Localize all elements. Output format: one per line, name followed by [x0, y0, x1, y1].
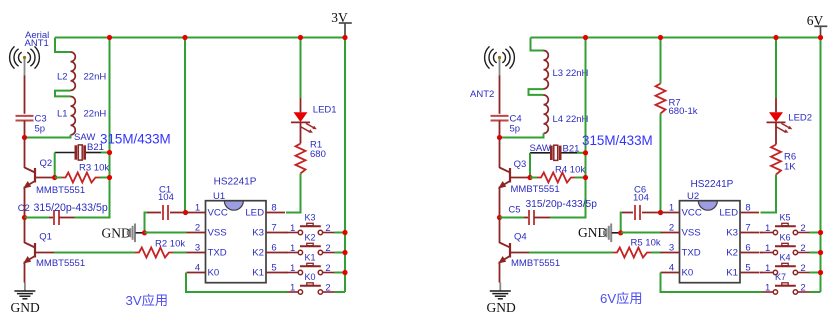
capacitor C5 [529, 210, 534, 225]
wire rail drop to VCC pin1 [184, 38, 186, 213]
wire L3-L4 jog [529, 89, 544, 95]
wire rail drop to SAW/R3/C2 net [75, 38, 110, 218]
svg-text:2: 2 [800, 243, 805, 254]
svg-text:Q2: Q2 [40, 158, 53, 169]
ground GND earth right [490, 283, 511, 299]
wire Q4 emitter down [499, 262, 501, 283]
wire ANT2 to C4 [499, 76, 501, 114]
node Q3 base [527, 175, 532, 180]
wire L2-L1 jog [55, 91, 71, 97]
U2 pin 5 (K1) [740, 272, 759, 274]
wire Q1 collector [24, 218, 26, 244]
junction SAW right net [583, 150, 588, 155]
junction K2/rail [342, 250, 347, 255]
wire pin to K6 [760, 252, 764, 254]
capacitor C2 [54, 210, 59, 225]
U1 pin 3 (TXD) [187, 252, 206, 254]
wire L1 to C3 node [25, 135, 71, 138]
svg-text:C5: C5 [508, 204, 520, 215]
power ground symbol at VSS U1 [128, 224, 135, 243]
svg-text:6: 6 [745, 243, 750, 254]
wire Q4 collector [499, 218, 501, 244]
resistor R7 680-1k [656, 84, 666, 114]
svg-text:1: 1 [290, 243, 295, 254]
U2 pin 7 (K3) [740, 232, 759, 234]
svg-text:ANT2: ANT2 [470, 89, 494, 100]
transistor Q4 MMBT5551 [500, 243, 530, 263]
U2 pin 2 (VSS) [661, 232, 680, 234]
wire pin to K3 [285, 232, 288, 234]
inductor L1 [71, 97, 76, 135]
wire LED1 cathode to R1 [300, 123, 302, 144]
svg-text:K6: K6 [780, 232, 791, 242]
U1 pin 4 (K0) [187, 272, 206, 274]
wire C1 right lead [170, 212, 184, 214]
inductor L2 [71, 52, 76, 90]
svg-text:315/20p-433/5p: 315/20p-433/5p [526, 199, 598, 210]
wire SAW right lead right [562, 152, 578, 154]
wire K0 pin4 route U2 [661, 273, 764, 293]
U1 pin 7 (K3) [266, 232, 285, 234]
LED LED2 [767, 112, 793, 133]
svg-text:K1: K1 [252, 268, 264, 279]
svg-text:K0: K0 [305, 272, 316, 282]
wire K5 to rail [809, 232, 820, 234]
wire SAW left lead [55, 152, 75, 154]
svg-text:1: 1 [765, 283, 770, 294]
wire Q3 collector [499, 138, 501, 169]
junction K6/rail [818, 250, 823, 255]
U2 pin 8 (LED) [740, 212, 759, 214]
junction rail/6V [818, 35, 823, 40]
SAW resonator B21 [75, 145, 87, 160]
svg-text:VCC: VCC [208, 208, 228, 219]
svg-text:7: 7 [271, 223, 276, 234]
wire Q2 emitter down [24, 187, 26, 218]
wire Q4 base to R5 [529, 252, 613, 254]
svg-text:7: 7 [745, 223, 750, 234]
transistor Q2 MMBT5551 [25, 168, 55, 188]
wire K4 to rail [809, 272, 820, 274]
wire R4 to x585 net [575, 177, 586, 179]
svg-text:2: 2 [800, 283, 805, 294]
svg-text:5p: 5p [510, 124, 521, 135]
junction rail/x585 [583, 35, 588, 40]
svg-text:R5 10k: R5 10k [631, 238, 661, 249]
transistor Q1 MMBT5551 [25, 243, 55, 263]
push button K2 [288, 243, 335, 254]
svg-text:315M/433M: 315M/433M [100, 131, 171, 146]
wire pin to K2 [285, 252, 288, 254]
junction rail/R7 [658, 35, 663, 40]
svg-text:6V应用: 6V应用 [600, 291, 643, 306]
svg-text:LED1: LED1 [313, 105, 337, 116]
junction rail/LED1 [298, 35, 303, 40]
push button K6 [763, 243, 810, 254]
svg-text:8: 8 [271, 203, 276, 214]
U1 pin 2 (VSS) [187, 232, 206, 234]
wire VCC 3V top rail [55, 37, 345, 39]
wire R2 to TXD pin3 [173, 252, 187, 254]
wire SAW right to junction right [577, 152, 586, 154]
wire SAW to Q3 base node [529, 153, 531, 178]
svg-text:K0: K0 [208, 268, 220, 279]
svg-text:Q4: Q4 [514, 232, 527, 243]
wire C5 right lead [534, 217, 550, 219]
capacitor C4 [491, 116, 509, 121]
svg-text:K2: K2 [305, 232, 316, 242]
wire K2 to rail [334, 252, 345, 254]
svg-text:LED: LED [245, 208, 264, 219]
svg-text:3V: 3V [331, 10, 348, 25]
node Q2 base [52, 175, 57, 180]
junction K1/rail [342, 270, 347, 275]
wire pin to K5 [760, 232, 764, 234]
wire rail to R7 [660, 38, 662, 84]
svg-text:315/20p-433/5p: 315/20p-433/5p [34, 202, 108, 214]
svg-text:1: 1 [290, 283, 295, 294]
svg-text:2: 2 [325, 243, 330, 254]
wire C6 left lead [622, 212, 633, 214]
svg-text:GND: GND [102, 226, 131, 241]
wire node to C5 [500, 217, 525, 219]
svg-text:8: 8 [745, 203, 750, 214]
wire VCC 6V top rail [531, 37, 821, 39]
svg-text:K1: K1 [305, 252, 316, 262]
resistor R4 10k [537, 173, 575, 183]
svg-text:R3 10k: R3 10k [79, 163, 109, 174]
power port 6V [814, 26, 827, 37]
svg-text:104: 104 [633, 193, 649, 204]
svg-text:5: 5 [745, 263, 750, 274]
svg-text:2: 2 [800, 263, 805, 274]
wire R3 to x109 net [100, 177, 110, 179]
wire pin to K1 [285, 272, 288, 274]
U2 pin 3 (TXD) [661, 252, 680, 254]
svg-text:MMBT5551: MMBT5551 [511, 258, 560, 269]
wire LED2 cathode to R6 [775, 123, 777, 145]
svg-text:2: 2 [325, 223, 330, 234]
svg-text:R4 10k: R4 10k [555, 165, 585, 176]
svg-text:L2: L2 [57, 72, 68, 83]
wire base to R4 [530, 177, 537, 179]
svg-text:MMBT5551: MMBT5551 [511, 184, 560, 195]
wire L4 to C4 node [500, 133, 544, 137]
junction K5/rail [818, 230, 823, 235]
wire ANT1 to C3 [24, 76, 26, 114]
svg-text:VCC: VCC [682, 208, 702, 219]
svg-text:4: 4 [195, 263, 200, 274]
svg-text:2: 2 [800, 223, 805, 234]
junction R3 right [107, 175, 112, 180]
wire R5 to TXD pin3 U2 [651, 252, 662, 254]
svg-text:1: 1 [195, 203, 200, 214]
transistor Q3 MMBT5551 [500, 168, 530, 188]
wire R1 to LED pin8 [286, 174, 301, 213]
U1 pin 1 (VCC) [187, 212, 206, 214]
push button K3 [288, 223, 335, 234]
wire C2 right lead [59, 217, 75, 219]
junction K4/rail [818, 270, 823, 275]
svg-text:TXD: TXD [208, 248, 227, 259]
svg-text:TXD: TXD [682, 248, 701, 259]
svg-text:680-1k: 680-1k [669, 106, 698, 117]
wire GND node up to C6 [621, 213, 622, 233]
push button K1 [288, 263, 335, 274]
svg-text:2: 2 [325, 283, 330, 294]
svg-text:GND: GND [487, 300, 516, 315]
svg-text:2: 2 [669, 223, 674, 234]
node VCC pin1 [183, 210, 188, 215]
svg-text:2: 2 [195, 223, 200, 234]
svg-text:GND: GND [11, 300, 40, 315]
svg-text:Q3: Q3 [514, 159, 527, 170]
svg-text:HS2241P: HS2241P [691, 179, 734, 190]
resistor R6 1K [771, 145, 781, 175]
wire C2 left lead [49, 217, 54, 219]
svg-text:3: 3 [669, 243, 674, 254]
svg-text:K2: K2 [726, 248, 738, 259]
push button K7 [763, 283, 810, 294]
svg-text:2: 2 [325, 263, 330, 274]
svg-text:K1: K1 [726, 268, 738, 279]
junction K3/rail [342, 230, 347, 235]
wire Q1 base to R2 [54, 252, 135, 254]
node Q2emitter/C2/Q1 junction [22, 215, 27, 220]
svg-text:1: 1 [290, 223, 295, 234]
svg-text:K3: K3 [726, 228, 738, 239]
svg-text:MMBT5551: MMBT5551 [36, 185, 85, 196]
svg-text:1: 1 [290, 263, 295, 274]
wire SAW right to junction [101, 152, 110, 154]
svg-text:L3 22nH: L3 22nH [553, 68, 589, 79]
wire SAW left lead right [530, 152, 550, 154]
ground GND earth left [14, 283, 35, 299]
svg-text:K4: K4 [780, 252, 791, 262]
wire K6 to rail [809, 252, 820, 254]
svg-text:22nH: 22nH [84, 72, 107, 83]
junction rail/x109 [107, 35, 112, 40]
antenna ANT1 [10, 46, 40, 68]
resistor R1 680 [296, 144, 306, 174]
wire rail to L3 [531, 38, 544, 51]
U1 pin 6 (K2) [266, 252, 285, 254]
push button K5 [763, 223, 810, 234]
wire 3V right rail [344, 38, 346, 293]
wire R7 to VCC pin1 U2 [660, 114, 662, 213]
wire LED2 anode [775, 98, 777, 112]
svg-text:1: 1 [669, 203, 674, 214]
power ground symbol at VSS U2 [604, 224, 611, 243]
node ANT2/C4/L4/Q3 junction [497, 135, 502, 140]
U1 pin 8 (LED) [266, 212, 285, 214]
svg-text:3V应用: 3V应用 [126, 293, 169, 308]
svg-text:R2 10k: R2 10k [155, 238, 185, 249]
svg-text:6V: 6V [807, 13, 824, 28]
svg-text:5p: 5p [35, 124, 46, 135]
wire rail to LED2 [775, 38, 777, 99]
svg-text:104: 104 [158, 192, 174, 203]
svg-text:C2: C2 [18, 203, 30, 214]
wire C5 left lead [524, 217, 529, 219]
push button K4 [763, 263, 810, 274]
wire 6V right rail [820, 38, 822, 293]
svg-text:4: 4 [669, 263, 674, 274]
wire Q1 emitter down [24, 262, 26, 283]
SAW resonator B21 right [550, 145, 562, 160]
wire SAW to Q2 base node [54, 153, 56, 178]
wire Q2 collector [24, 138, 26, 169]
svg-text:5: 5 [271, 263, 276, 274]
junction rail/3V [342, 35, 347, 40]
node ANT1/C3/L1/Q2 junction [22, 135, 27, 140]
U2 pin 4 (K0) [661, 272, 680, 274]
svg-text:ANT1: ANT1 [25, 38, 49, 49]
wire C3 to node [24, 121, 26, 138]
LED LED1 [291, 112, 317, 133]
IC U1 HS2241P body [206, 201, 267, 283]
wire rail to L2 [55, 38, 71, 53]
node VSS/C6/GND right [618, 230, 623, 235]
wire node to C2 [25, 217, 50, 219]
wire rail drop to SAW/R4/C5 net [550, 38, 586, 218]
svg-text:HS2241P: HS2241P [214, 177, 257, 188]
svg-text:K3: K3 [305, 212, 316, 222]
wire GND node up to C1 [145, 213, 148, 234]
wire K0 pin4 route [186, 273, 288, 293]
wire K1 to rail [334, 272, 345, 274]
svg-text:LED: LED [719, 208, 738, 219]
power port 3V [339, 23, 352, 37]
svg-text:6: 6 [271, 243, 276, 254]
svg-text:VSS: VSS [208, 228, 227, 239]
wire C4 to node [499, 121, 501, 138]
wire K3 to rail [334, 232, 345, 234]
wire C6 right lead [642, 212, 659, 214]
junction SAW right [107, 150, 112, 155]
wire GND to VSS pin2 U2 [621, 232, 662, 234]
capacitor C1 104 [163, 205, 168, 220]
svg-text:L1: L1 [57, 109, 68, 120]
svg-text:K3: K3 [252, 228, 264, 239]
wire K7 to rail [809, 291, 820, 293]
wire LED1 anode [300, 98, 302, 112]
antenna ANT2 [485, 46, 515, 68]
svg-text:315M/433M: 315M/433M [582, 133, 653, 148]
svg-text:B21: B21 [87, 142, 104, 153]
wire SAW right lead [86, 152, 101, 154]
svg-text:1: 1 [765, 263, 770, 274]
U2 pin 1 (VCC) [661, 212, 680, 214]
svg-text:VSS: VSS [682, 228, 701, 239]
wire pin to K4 [760, 272, 764, 274]
inductor L3 [544, 51, 549, 89]
IC U2 HS2241P body [680, 201, 741, 283]
push button K0 [288, 283, 335, 294]
capacitor C6 104 [635, 205, 640, 220]
node VCC pin1 U2 [658, 210, 663, 215]
capacitor C3 [16, 116, 34, 121]
svg-text:Q1: Q1 [39, 232, 52, 243]
svg-text:K2: K2 [252, 248, 264, 259]
svg-text:22nH: 22nH [84, 109, 107, 120]
resistor R5 10k [613, 248, 651, 258]
wire base to R3 [55, 177, 62, 179]
svg-text:1K: 1K [784, 161, 796, 172]
inductor L4 [544, 95, 549, 133]
node VSS/C1/GND [142, 230, 147, 235]
svg-text:K5: K5 [780, 212, 791, 222]
svg-text:LED2: LED2 [788, 113, 812, 124]
wire K0 to rail [334, 291, 345, 293]
svg-text:K0: K0 [682, 268, 694, 279]
svg-text:1: 1 [765, 223, 770, 234]
U2 pin 6 (K2) [740, 252, 759, 254]
wire GND to VSS pin2 [145, 232, 187, 234]
svg-text:MMBT5551: MMBT5551 [36, 258, 85, 269]
junction rail/LED2 [773, 35, 778, 40]
resistor R2 10k [135, 248, 173, 258]
U1 pin 5 (K1) [266, 272, 285, 274]
svg-text:L4 22nH: L4 22nH [553, 114, 589, 125]
junction R4 right [583, 175, 588, 180]
wire C1 left lead [147, 212, 161, 214]
junction rail/x185 [182, 35, 187, 40]
node Q3emitter/C5/Q4 junction [497, 215, 502, 220]
svg-text:K7: K7 [775, 272, 786, 282]
wire Q3 emitter down [499, 187, 501, 218]
svg-text:680: 680 [310, 149, 326, 160]
svg-text:1: 1 [765, 243, 770, 254]
resistor R3 10k [62, 173, 100, 183]
wire R6 to LED pin8 U2 [761, 175, 777, 213]
wire rail to LED1 [300, 38, 302, 99]
svg-text:3: 3 [195, 243, 200, 254]
